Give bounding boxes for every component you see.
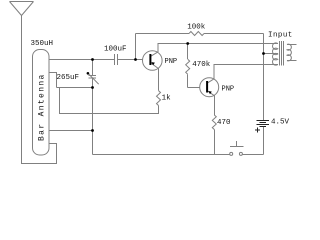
svg-text:100k: 100k <box>187 24 206 32</box>
svg-text:1k: 1k <box>162 95 172 103</box>
svg-text:Input: Input <box>268 32 293 40</box>
svg-text:100uF: 100uF <box>104 46 127 54</box>
svg-text:470k: 470k <box>192 61 211 69</box>
svg-text:470: 470 <box>217 119 231 127</box>
svg-text:PNP: PNP <box>222 86 235 94</box>
svg-text:4.5V: 4.5V <box>271 119 290 127</box>
svg-text:350uH: 350uH <box>31 40 54 48</box>
svg-text:265uF: 265uF <box>57 74 80 82</box>
svg-text:Bar Antenna: Bar Antenna <box>38 73 47 141</box>
svg-text:PNP: PNP <box>165 58 178 66</box>
